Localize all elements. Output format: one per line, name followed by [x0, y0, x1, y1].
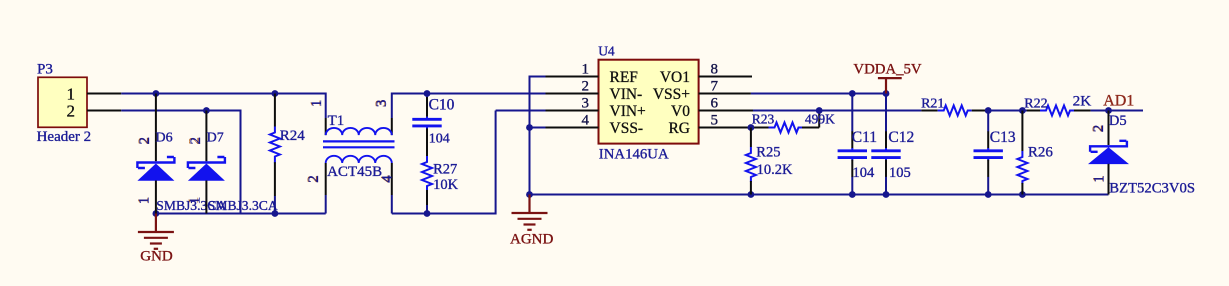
svg-text:VDDA_5V: VDDA_5V [853, 62, 922, 78]
svg-text:2: 2 [306, 175, 322, 183]
pin D6.1 [155, 181, 157, 214]
svg-text:REF: REF [610, 69, 639, 86]
diode D7 (TVS zener) [188, 157, 225, 181]
svg-text:1: 1 [582, 61, 590, 77]
svg-text:V0: V0 [671, 103, 690, 120]
wire V0 row to R21 [753, 110, 921, 112]
svg-text:104: 104 [853, 165, 876, 181]
svg-text:2: 2 [1091, 125, 1107, 133]
junction R23/V0 [816, 107, 823, 114]
wire C10 top lead [426, 94, 428, 99]
op-amp U4 INA146UA body [599, 60, 699, 144]
junction C12 top / VDDA [883, 90, 890, 97]
pin number T1.4 [378, 175, 395, 183]
pin P3.1 [87, 93, 121, 95]
pin number D6.2 [136, 137, 153, 145]
junction D7 top [203, 107, 210, 114]
junction R25 top [748, 124, 755, 131]
svg-text:2: 2 [188, 137, 204, 145]
resistor R26 [1017, 151, 1027, 184]
svg-text:R21: R21 [921, 96, 944, 111]
svg-text:AD1: AD1 [1103, 93, 1134, 110]
U4 pin names [610, 69, 691, 137]
svg-text:C12: C12 [888, 129, 914, 146]
capacitor C11 [838, 151, 867, 158]
wire U4 pin4 VSS- [530, 127, 546, 129]
svg-text:D6: D6 [156, 131, 173, 146]
svg-text:R25: R25 [756, 145, 780, 161]
pin R25 top [750, 128, 752, 148]
pin D5.1 [1108, 164, 1110, 195]
junction R26 top [1019, 107, 1026, 114]
pin D5.2 [1108, 111, 1110, 146]
junction GND / D6 bottom [153, 210, 160, 217]
wire up to VIN+ row [495, 111, 497, 215]
pin R25 bottom [750, 181, 752, 195]
junction C11 bottom [849, 191, 856, 198]
connector P3 (Header 2) [38, 77, 87, 127]
diode D5 zener [1088, 141, 1129, 164]
wire C12 top lead [885, 94, 887, 132]
ground GND [138, 214, 174, 249]
junction D5 top [1105, 107, 1112, 114]
svg-text:SMBJ3.3CA: SMBJ3.3CA [208, 198, 278, 213]
pin number D7.1 [186, 197, 203, 205]
wire R21 to R22 [987, 110, 1028, 112]
svg-text:VIN-: VIN- [610, 86, 643, 103]
junction C12 bottom [883, 191, 890, 198]
wire net VIN+ bottom rail [392, 213, 496, 215]
svg-text:VSS-: VSS- [610, 120, 644, 137]
pin R22 right [1074, 110, 1091, 112]
pin R26 top [1021, 111, 1023, 152]
svg-text:C13: C13 [990, 129, 1016, 146]
svg-text:VSS+: VSS+ [653, 86, 690, 103]
svg-text:VIN+: VIN+ [610, 103, 646, 120]
junction C11 top [849, 90, 856, 97]
wire U4 pin1 REF [530, 76, 546, 78]
wire R22 to AD1 stub [1091, 110, 1143, 112]
svg-text:2: 2 [137, 137, 153, 145]
U4 pin numbers [582, 61, 719, 128]
resistor R23 [769, 123, 803, 133]
svg-text:1: 1 [187, 197, 203, 205]
transformer T1 windings and core [323, 128, 395, 163]
wire T1 pin2 to ground rail [325, 195, 327, 214]
C10 top blue stub [426, 117, 428, 120]
wire C11 top lead [851, 94, 853, 132]
svg-text:INA146UA: INA146UA [599, 146, 669, 162]
pin number D6.1 [135, 197, 152, 205]
capacitor C10 [412, 119, 441, 126]
pin C10 top [426, 97, 428, 117]
junction C13 top [985, 107, 992, 114]
svg-text:ACT45B: ACT45B [327, 164, 382, 180]
wire R23 up to V0 row [818, 111, 820, 128]
svg-text:3: 3 [374, 100, 390, 108]
svg-text:499K: 499K [805, 112, 835, 127]
svg-text:RG: RG [668, 120, 690, 137]
ground AGND [512, 195, 548, 230]
svg-text:R24: R24 [280, 128, 306, 144]
svg-text:R26: R26 [1028, 145, 1054, 161]
resistor R27 [422, 156, 432, 191]
resistor R25 [746, 147, 756, 182]
pin number T1.1 [308, 100, 325, 108]
pin R21 left [921, 110, 937, 112]
pin number D5.1 [1090, 175, 1107, 183]
svg-text:U4: U4 [598, 44, 615, 59]
resistor R21 [938, 106, 972, 116]
pin P3.2 [87, 110, 121, 112]
svg-text:2K: 2K [1073, 92, 1092, 109]
wire net P3.2 [121, 110, 240, 112]
pin R21 right [972, 110, 987, 112]
svg-text:Header 2: Header 2 [37, 129, 92, 145]
junction R24 bottom [272, 210, 279, 217]
wire to T1 pin1 [325, 93, 327, 119]
pin number T1.3 [373, 100, 390, 108]
pin number D5.2 [1090, 125, 1107, 133]
svg-text:6: 6 [711, 95, 719, 111]
svg-text:1: 1 [1092, 175, 1108, 183]
wire net VIN- rail [392, 93, 546, 95]
wire C12 bottom lead [885, 177, 887, 195]
pin R23 left / U4 pin5 lead [753, 127, 769, 129]
pin R22 left [1027, 110, 1040, 112]
wire C11 bottom lead [851, 177, 853, 195]
junction C10 top [424, 90, 431, 97]
svg-text:AGND: AGND [510, 232, 553, 248]
svg-text:2: 2 [582, 78, 590, 94]
pin R26 bottom [1021, 183, 1023, 195]
junction REF/VSS- [526, 124, 533, 131]
svg-text:R22: R22 [1024, 96, 1047, 111]
wire R27 bottom [426, 205, 428, 214]
pin R24 bottom [274, 162, 276, 196]
wire T1 pin4 down [391, 195, 393, 214]
pin number D7.2 [187, 137, 204, 145]
svg-text:D7: D7 [207, 131, 224, 146]
svg-text:VO1: VO1 [660, 69, 690, 86]
resistor R24 [270, 127, 280, 164]
svg-text:10K: 10K [433, 177, 459, 193]
U4 left pins 1-4 [546, 77, 599, 128]
wire into U4 pin3 [496, 110, 546, 112]
junction R26 bottom [1019, 191, 1026, 198]
wire P3.2 down to ground rail [240, 110, 242, 214]
C10 bottom blue stub [426, 126, 428, 129]
svg-text:5: 5 [711, 112, 719, 128]
junction AGND [526, 191, 533, 198]
svg-text:R23: R23 [752, 112, 775, 127]
svg-text:1: 1 [137, 197, 153, 205]
svg-text:GND: GND [140, 249, 173, 265]
capacitor C13 [974, 151, 1003, 158]
svg-text:105: 105 [889, 165, 911, 181]
junction D6 top [153, 90, 160, 97]
wire left ground rail [156, 213, 326, 215]
wire C13 bottom lead [987, 177, 989, 195]
svg-text:1: 1 [309, 100, 325, 108]
svg-text:R27: R27 [433, 162, 457, 178]
U4 right pins 5-8 [699, 77, 753, 128]
capacitor C12 [871, 151, 900, 158]
svg-text:C11: C11 [852, 129, 877, 146]
svg-text:8: 8 [711, 61, 719, 77]
svg-text:3: 3 [582, 95, 590, 111]
pin D7.2 [205, 111, 207, 162]
transformer T1 pins [326, 118, 392, 195]
svg-text:BZT52C3V0S: BZT52C3V0S [1109, 180, 1195, 196]
svg-text:D5: D5 [1109, 113, 1127, 129]
pin D7.1 [205, 181, 207, 214]
junction R25 bottom [748, 191, 755, 198]
pin C10 bottom / R27 top [426, 128, 428, 156]
pin number T1.2 [305, 175, 322, 183]
svg-text:7: 7 [711, 78, 719, 94]
svg-text:C10: C10 [429, 97, 455, 114]
svg-text:P3: P3 [37, 62, 53, 78]
wire net P3.1 top rail [121, 93, 325, 95]
svg-text:T1: T1 [328, 113, 345, 129]
pin R23 right [802, 127, 819, 129]
junction R27 bottom [424, 210, 431, 217]
diode D6 (TVS zener) [137, 157, 174, 181]
resistor R22 [1040, 106, 1074, 116]
wire REF down to AGND [529, 76, 531, 195]
junction R24 top [272, 90, 279, 97]
pin D6.2 [155, 94, 157, 162]
svg-text:10.2K: 10.2K [757, 162, 793, 178]
pin R27 bottom [426, 190, 428, 205]
svg-text:4: 4 [582, 112, 590, 128]
wire net VDDA row (pin7) [751, 93, 886, 95]
svg-text:104: 104 [429, 132, 450, 147]
pin R24 top [274, 94, 276, 127]
svg-text:2: 2 [67, 102, 76, 121]
junction C13 bottom [985, 191, 992, 198]
wire R24 bottom to rail [274, 196, 276, 214]
wire AGND rail [530, 194, 1109, 196]
power VDDA_5V [878, 78, 902, 93]
wire C13 top lead [987, 111, 989, 132]
wire T1 pin3 up [391, 93, 393, 119]
